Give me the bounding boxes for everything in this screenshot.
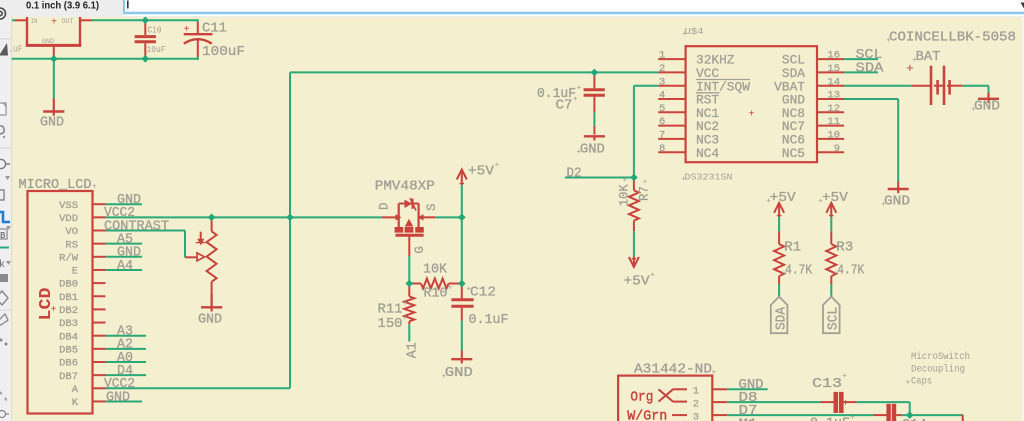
junction C10 bottom: [142, 55, 150, 63]
ground battery: [987, 93, 989, 103]
svg-text:C13: C13: [812, 377, 842, 392]
svg-text:CONTRAST: CONTRAST: [104, 219, 169, 234]
svg-text:+: +: [495, 161, 500, 170]
resistor R1 4.7K: [778, 231, 780, 244]
net GND on pin1: [727, 388, 768, 390]
svg-text:0.1uF: 0.1uF: [810, 417, 850, 421]
LCD pin stubs: [92, 203, 106, 205]
sidebar icon dots: [0, 339, 3, 342]
svg-text:Decoupling: Decoupling: [911, 364, 965, 376]
capacitor C14: [873, 414, 886, 416]
svg-text:7: 7: [659, 130, 665, 142]
supply +5V above R1: [774, 203, 784, 213]
svg-text:1: 1: [693, 386, 699, 398]
sidebar icon page: [0, 103, 6, 115]
net D7 on pin3: [727, 414, 873, 416]
svg-text:R/W: R/W: [59, 252, 79, 264]
svg-text:10uF: 10uF: [147, 45, 166, 55]
svg-text:+: +: [682, 30, 687, 39]
svg-text:B: B: [0, 231, 6, 241]
svg-text:3: 3: [693, 411, 699, 421]
svg-text:0.1uF: 0.1uF: [469, 313, 509, 328]
svg-text:IN: IN: [31, 18, 38, 25]
svg-text:NC5: NC5: [782, 147, 805, 161]
svg-text:SDA: SDA: [782, 67, 806, 81]
net D8 on pin2: [727, 401, 820, 403]
svg-text:GND: GND: [445, 366, 473, 381]
input dropdown arrow: [1021, 3, 1024, 9]
svg-text:+: +: [577, 148, 582, 157]
svg-text:+: +: [442, 373, 447, 382]
svg-text:GND: GND: [580, 142, 605, 157]
supply +5V (FET): [457, 170, 467, 180]
net A3 on DB4: [106, 335, 147, 337]
svg-text:PMV48XP: PMV48XP: [375, 180, 435, 195]
svg-text:DB5: DB5: [59, 344, 78, 356]
svg-text:SDA: SDA: [856, 61, 885, 76]
capacitor C13: [821, 401, 834, 403]
svg-text:4.7K: 4.7K: [785, 264, 813, 279]
net A2 on DB5: [106, 348, 147, 350]
svg-text:32KHZ: 32KHZ: [696, 54, 735, 68]
wire junction right: [901, 414, 962, 416]
connector pin stubs and numbers: [712, 388, 727, 390]
svg-text:DB4: DB4: [59, 331, 78, 343]
net stub A1: [408, 324, 410, 341]
capacitor C12: [461, 284, 463, 299]
sidebar icon blue L: [0, 212, 10, 222]
svg-text:+: +: [834, 270, 839, 279]
svg-text:+: +: [650, 271, 655, 280]
svg-text:U$4: U$4: [685, 27, 704, 37]
junction at regulator GND: [50, 55, 58, 63]
svg-text:NC4: NC4: [696, 147, 719, 161]
sidebar icon swirl: [0, 126, 4, 134]
svg-text:SDA: SDA: [774, 306, 789, 330]
junction C7 tap: [591, 69, 599, 77]
wire into regulator IN: [12, 19, 15, 21]
svg-text:+: +: [403, 300, 408, 309]
resistor R7 10K: [633, 178, 635, 191]
left tool sidebar: [0, 17, 12, 421]
svg-text:DB3: DB3: [59, 318, 78, 330]
svg-text:Caps: Caps: [911, 377, 932, 388]
net SCL at pin16: [844, 58, 878, 60]
svg-text:2: 2: [693, 398, 699, 410]
svg-text:+: +: [466, 285, 471, 294]
svg-text:VO: VO: [65, 226, 78, 238]
sidebar icon circle-line: [0, 159, 6, 168]
svg-text:+: +: [843, 399, 849, 410]
net GND on VSS: [106, 203, 143, 205]
svg-text:10K: 10K: [423, 263, 448, 278]
svg-text:+: +: [850, 414, 855, 421]
wire INT/SQW vertical: [633, 86, 635, 178]
junction D2 R7: [630, 174, 638, 182]
svg-text:12: 12: [827, 103, 840, 115]
svg-text:+: +: [971, 106, 976, 115]
svg-text:14: 14: [827, 76, 840, 88]
svg-text:DB6: DB6: [59, 358, 78, 370]
svg-text:R7: R7: [637, 186, 651, 201]
net CONTRAST on VO: [106, 230, 186, 232]
svg-text:+: +: [712, 369, 717, 378]
transistor Q1 PMV48XP: [382, 216, 399, 218]
svg-text:VSS: VSS: [59, 200, 78, 212]
svg-text:K: K: [72, 397, 79, 409]
svg-text:MicroSwitch: MicroSwitch: [911, 351, 970, 363]
net SDA at pin15: [844, 71, 878, 73]
svg-text:1: 1: [659, 50, 665, 62]
connector A31442-ND (box): [618, 376, 712, 421]
sidebar icon gray square: [0, 274, 8, 282]
ground under C7: [593, 136, 595, 140]
svg-text:+: +: [842, 372, 847, 381]
svg-text:A: A: [72, 384, 79, 396]
connector Org X symbol (crossover to pins 1-2): [659, 389, 674, 401]
svg-text:A1: A1: [406, 342, 421, 358]
battery BAT: [911, 85, 930, 87]
wire pin3 INT/SQW: [634, 85, 658, 87]
svg-text:+: +: [766, 197, 771, 206]
sidebar separator 2: [0, 147, 11, 149]
sidebar icon dark triangle: [0, 43, 8, 56]
svg-text:VBAT: VBAT: [774, 80, 805, 94]
text caret in input: [127, 1, 129, 9]
ground pin13: [897, 187, 899, 193]
junction FET source: [458, 214, 466, 222]
svg-text:NC1: NC1: [696, 107, 719, 121]
svg-text:+: +: [906, 379, 911, 388]
IC left pin stubs 1-8: [658, 58, 685, 60]
svg-text:C7: C7: [556, 99, 573, 114]
ground under trimmer: [211, 294, 213, 311]
wire to SDA flag: [778, 284, 780, 296]
ground under C12: [461, 359, 463, 363]
svg-text:+: +: [782, 270, 787, 279]
wire FET source to +5V node: [435, 216, 462, 218]
svg-text:S: S: [425, 203, 439, 211]
svg-text:SCL: SCL: [782, 54, 805, 68]
svg-text:GND: GND: [40, 116, 64, 131]
svg-text:NC8: NC8: [782, 107, 805, 121]
sidebar separator 3: [0, 309, 11, 311]
wire pin14 VBAT to battery: [844, 85, 911, 87]
svg-text:OUT: OUT: [62, 18, 74, 25]
net VCC2 on VDD (wire to FET drain): [106, 216, 383, 218]
svg-text:+: +: [92, 183, 97, 192]
svg-text:GND: GND: [974, 100, 1000, 115]
svg-text:11: 11: [827, 116, 840, 128]
command input field: [123, 0, 1024, 16]
wire to SCL flag: [830, 284, 832, 296]
junction C10 top: [142, 17, 150, 25]
svg-text:+: +: [51, 305, 57, 316]
svg-text:+: +: [403, 314, 408, 323]
right scrollbar strip: [1022, 17, 1024, 421]
VCC2 vertical wire: [289, 72, 291, 388]
svg-text:NC6: NC6: [782, 134, 805, 148]
svg-text:GND: GND: [198, 313, 222, 328]
sidebar separator 1: [0, 38, 11, 40]
wire +5V node down: [461, 217, 463, 283]
connector W/Grn dash: [672, 414, 687, 416]
sidebar icon green net: [0, 247, 9, 249]
trimmer R (contrast pot): [211, 217, 213, 231]
svg-text:W/Grn: W/Grn: [627, 410, 667, 421]
junction pot top: [208, 214, 216, 222]
top toolbar background: [0, 0, 1024, 17]
svg-text:0.1 inch (3.9 6.1): 0.1 inch (3.9 6.1): [26, 0, 99, 12]
trimmer adjust arrow: [200, 232, 202, 240]
sidebar icon label B: [0, 229, 7, 239]
svg-text:E: E: [72, 266, 78, 278]
svg-text:8: 8: [659, 143, 665, 155]
net flag SDA: [771, 297, 788, 334]
svg-text:+5V: +5V: [468, 165, 495, 180]
net D4 on DB7: [106, 374, 147, 376]
svg-text:GND: GND: [782, 94, 805, 108]
net A5 on RS: [106, 243, 143, 245]
svg-text:4: 4: [659, 90, 665, 102]
net flag SCL: [823, 297, 840, 334]
svg-text:DB1: DB1: [59, 292, 78, 304]
svg-text:+: +: [577, 84, 582, 93]
wire C12 to ground: [461, 321, 463, 351]
svg-text:+: +: [886, 37, 891, 46]
svg-text:R3: R3: [836, 241, 853, 256]
junction R10 left: [406, 280, 414, 288]
svg-text:C12: C12: [470, 286, 496, 301]
svg-text:+: +: [573, 95, 578, 104]
svg-text:+5V: +5V: [822, 191, 849, 206]
net D2 label wire: [565, 177, 634, 179]
capacitor C7: [593, 72, 595, 88]
svg-text:DS3231SN: DS3231SN: [685, 173, 733, 183]
svg-text:R10: R10: [424, 287, 448, 302]
capacitor C10: [144, 20, 146, 35]
svg-text:D: D: [378, 202, 392, 210]
svg-text:GND: GND: [106, 390, 130, 405]
svg-text:k: k: [0, 259, 5, 271]
svg-text:150: 150: [378, 317, 403, 332]
svg-text:+: +: [681, 175, 686, 184]
supply +5V below R7: [633, 231, 635, 256]
svg-text:10K: 10K: [618, 184, 632, 206]
net GND on K: [106, 400, 143, 402]
net GND on R/W: [106, 256, 143, 258]
trimmer wiper arrow: [185, 256, 197, 258]
svg-text:Org: Org: [630, 391, 653, 406]
sidebar icon eye: [0, 8, 6, 19]
svg-text:5: 5: [659, 103, 665, 115]
sidebar icon quad: [0, 314, 8, 325]
svg-text:16: 16: [827, 50, 840, 62]
svg-text:+: +: [51, 18, 57, 29]
junction R10 right: [458, 280, 466, 288]
capacitor C11 (polarized): [197, 20, 199, 22]
sidebar icon bracket: [0, 190, 4, 200]
net A0 on DB6: [106, 361, 147, 363]
svg-text:M1: M1: [739, 418, 758, 421]
ground bus wire: [12, 58, 199, 60]
svg-text:*: *: [3, 397, 8, 407]
svg-text:DB2: DB2: [59, 305, 78, 317]
wire battery to ground: [962, 85, 988, 87]
svg-text:+: +: [622, 177, 631, 182]
svg-text:C10: C10: [148, 25, 162, 35]
regulator GND pin stub: [53, 47, 55, 56]
svg-text:+: +: [448, 284, 453, 293]
IC right pin stubs 16-9: [817, 58, 844, 60]
svg-text:DB0: DB0: [59, 279, 78, 291]
wire pin13 to ground: [844, 98, 898, 100]
svg-text:4.7K: 4.7K: [837, 264, 865, 279]
svg-text:VDD: VDD: [59, 213, 78, 225]
svg-text:GND: GND: [884, 195, 910, 210]
junction C13 C14: [906, 411, 914, 419]
svg-text:MICRO_LCD: MICRO_LCD: [19, 178, 92, 193]
svg-text:A4: A4: [117, 259, 133, 274]
svg-text:+: +: [818, 197, 823, 206]
svg-text:SCL: SCL: [827, 307, 842, 330]
svg-text:+5V: +5V: [770, 191, 797, 206]
svg-text:2: 2: [659, 63, 665, 75]
svg-text:G: G: [413, 246, 427, 254]
wire C13 to junction: [857, 401, 910, 403]
svg-text:D2: D2: [567, 166, 582, 181]
svg-text:R11: R11: [378, 303, 403, 318]
resistor R3 4.7K: [830, 231, 832, 244]
IC U$4 DS3231 (box): [686, 46, 817, 162]
svg-text:+: +: [749, 110, 755, 121]
svg-text:13: 13: [827, 90, 840, 102]
resistor R10 10K: [409, 283, 421, 285]
svg-text:+: +: [906, 61, 914, 76]
svg-text:10: 10: [827, 130, 840, 142]
ground GND1: [53, 99, 55, 116]
supply +5V above R3: [826, 203, 836, 213]
svg-text:A31442-ND: A31442-ND: [634, 363, 712, 378]
voltage regulator U (box, cut off at top): [26, 17, 28, 47]
svg-text:GND: GND: [42, 38, 54, 45]
sidebar icon circle-plus: [0, 411, 6, 418]
svg-text:+: +: [881, 201, 886, 210]
svg-text:BAT: BAT: [916, 50, 941, 65]
resistor R11 150: [408, 284, 410, 297]
svg-text:9: 9: [834, 143, 840, 155]
svg-text:NC2: NC2: [696, 120, 719, 134]
svg-text:NC3: NC3: [696, 134, 719, 148]
net VCC2 on A (wire to vertical bus): [106, 387, 291, 389]
svg-text:C11: C11: [202, 20, 227, 36]
wire OUT to top net: [80, 19, 92, 21]
svg-text:15: 15: [827, 63, 840, 75]
VCC wire to pin 2: [290, 71, 658, 73]
svg-text:3: 3: [659, 76, 665, 88]
svg-text:+: +: [641, 179, 650, 184]
LCD module MICRO_LCD (box): [28, 191, 93, 414]
svg-text:COINCELLBK-5058: COINCELLBK-5058: [889, 31, 1016, 46]
sidebar icon diamond: [0, 291, 8, 305]
svg-text:100uF: 100uF: [202, 44, 245, 60]
svg-text:6: 6: [659, 116, 665, 128]
svg-text:DB7: DB7: [59, 371, 78, 383]
svg-text:.uF: .uF: [9, 45, 23, 55]
svg-text:R1: R1: [784, 241, 801, 256]
svg-text:RST: RST: [696, 94, 720, 108]
svg-text:+5V: +5V: [624, 275, 651, 290]
wire gate to R10 node: [408, 256, 410, 284]
net A4 on E: [106, 269, 143, 271]
junction VCC2 cross: [286, 214, 294, 222]
wire to ground symbol: [53, 59, 55, 99]
svg-text:RS: RS: [65, 239, 78, 251]
svg-text:+: +: [184, 25, 190, 36]
svg-text:NC7: NC7: [782, 120, 805, 134]
